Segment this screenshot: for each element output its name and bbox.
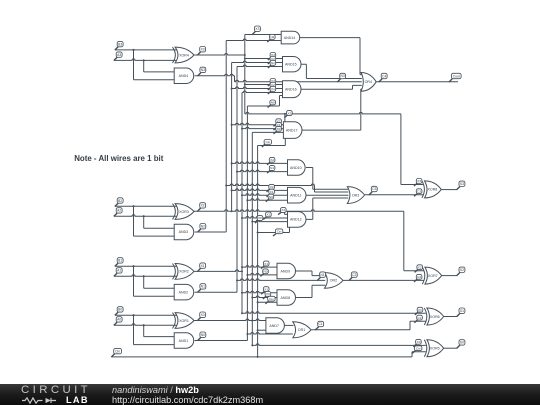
flag/net label X2 — [197, 203, 205, 212]
junction at 258,232 — [257, 232, 259, 234]
svg-text:N1: N1 — [201, 285, 205, 289]
svg-text:X3: X3 — [255, 27, 259, 31]
wire net A2 to AND3 — [144, 227, 175, 229]
wire net N2 source — [195, 231, 227, 233]
wire AND14 input N2 — [226, 39, 281, 41]
flag/net label X0 — [255, 216, 263, 224]
svg-text:C3: C3 — [417, 190, 421, 194]
wire AND17 input X3 stub — [284, 114, 286, 122]
wire net X1 long run to XOR6 — [242, 312, 426, 314]
flag/net label X2 — [415, 265, 423, 273]
svg-text:C2: C2 — [417, 275, 421, 279]
svg-text:A1: A1 — [117, 269, 121, 273]
junction at 134,50 — [133, 49, 135, 51]
wire net A3 input — [114, 59, 177, 60]
junction at 242,267 — [241, 266, 243, 268]
svg-text:C3: C3 — [372, 187, 376, 191]
svg-text:B1: B1 — [118, 259, 122, 263]
wire net S2 output — [442, 275, 457, 277]
wire AND7 input Cin — [258, 329, 266, 331]
svg-text:AND2: AND2 — [179, 290, 189, 294]
flag/net label Cin — [273, 229, 283, 236]
XOR gate XOR7 — [422, 267, 441, 284]
svg-text:OR3: OR3 — [352, 193, 359, 197]
svg-text:X0: X0 — [201, 313, 205, 317]
wire bus net X1 vertical — [241, 93, 243, 314]
flag/net label X1 — [267, 189, 275, 197]
flag/net label B0 — [115, 307, 123, 316]
wire bus net X3 vertical — [244, 35, 246, 114]
flag/net label B1 — [115, 258, 123, 267]
wire net C2 OR2 to XOR7 — [343, 279, 424, 281]
junction at 144,60 — [143, 59, 145, 61]
wire AND16 input N0 route — [247, 96, 282, 107]
svg-text:N1: N1 — [320, 273, 324, 277]
OR gate OR1 — [293, 322, 311, 338]
junction at 232,88 — [231, 88, 233, 90]
svg-text:X3: X3 — [288, 111, 292, 115]
flag/net label A1 — [114, 268, 122, 277]
wire AND12 input X2 step — [285, 211, 288, 214]
wire AND11 input N0 — [247, 199, 287, 200]
svg-text:B2: B2 — [118, 199, 122, 203]
junction at 242,293 — [241, 292, 243, 294]
svg-text:N0: N0 — [201, 333, 205, 337]
flag/net label X3 — [284, 111, 292, 118]
junction at 242,271 — [241, 270, 243, 272]
svg-text:C1: C1 — [418, 316, 422, 320]
flag/net label A0 — [114, 317, 122, 326]
svg-text:X1: X1 — [271, 87, 275, 91]
attribution text — [112, 386, 263, 405]
wire bus net N0 vertical — [246, 106, 248, 341]
svg-text:Cin: Cin — [416, 346, 421, 350]
junction at 237,280 — [236, 279, 238, 281]
wire net N2 long run to OR3 — [226, 184, 348, 192]
flag/net label C2 — [349, 272, 357, 281]
junction at 247,334 — [246, 333, 248, 335]
wire net B1 tap down — [133, 266, 135, 296]
svg-text:AND12: AND12 — [290, 218, 302, 222]
wire bus net N1 vertical — [236, 67, 238, 293]
wire net X0 long run to XOR5 — [252, 344, 425, 346]
junction at 242,313 — [241, 312, 243, 314]
wire net A3 to AND4 — [144, 71, 175, 73]
wire AND16 input X2 — [232, 87, 283, 89]
wire bus net Cin vertical — [257, 146, 259, 357]
svg-text:X0: X0 — [277, 127, 281, 131]
wire net B1 to AND2 — [134, 295, 176, 297]
AND gate AND3 — [174, 224, 194, 240]
wire net A0 tap down — [143, 325, 145, 336]
AND gate AND1 — [174, 333, 194, 349]
svg-text:AND3: AND3 — [179, 230, 189, 234]
flag/net label C3 — [369, 186, 377, 195]
junction at 242,129 — [241, 128, 243, 130]
flag/net label A3 — [114, 52, 122, 61]
wire net B0 tap down — [133, 315, 135, 344]
flag/net label B2 — [115, 198, 123, 207]
svg-text:XOR6: XOR6 — [430, 315, 440, 319]
svg-text:X1: X1 — [267, 213, 271, 217]
flag/net label C1 — [414, 315, 422, 323]
svg-text:OR4: OR4 — [365, 80, 372, 84]
wire AND11 input X2 — [232, 189, 288, 191]
svg-text:X1: X1 — [270, 190, 274, 194]
wire AND14 input X3 — [245, 34, 281, 36]
flag/net label X0 — [263, 292, 271, 300]
junction at 144,216 — [143, 215, 145, 217]
wire AND12 input X1 — [242, 217, 288, 218]
junction at 247,275 — [246, 274, 248, 276]
flag/net label X0 — [413, 339, 421, 347]
flag/net label X3 — [268, 79, 276, 87]
svg-text:S3: S3 — [460, 182, 464, 186]
flag/net label X2 — [268, 57, 276, 65]
svg-text:A2: A2 — [117, 209, 121, 213]
wire AND17 input X2 — [232, 123, 284, 125]
svg-text:Cout: Cout — [453, 74, 460, 78]
junction at 252,345 — [251, 344, 253, 346]
wire net B2 tap down — [133, 206, 135, 236]
wire AND15 output to OR4 — [301, 64, 362, 78]
XOR gate XOR3 — [173, 204, 195, 220]
svg-text:X0: X0 — [417, 340, 421, 344]
svg-text:X1: X1 — [264, 287, 268, 291]
junction at 258,330 — [257, 329, 259, 331]
svg-text:S2: S2 — [460, 268, 464, 272]
wire bus net N2 vertical — [225, 41, 227, 233]
flag/net label X2 — [267, 184, 275, 192]
flag/net label X0 — [197, 312, 205, 321]
junction at 232,190 — [231, 189, 233, 191]
wire AND11 output to OR3 — [306, 194, 349, 196]
flag/net label X3 — [268, 53, 276, 61]
junction at 144,276 — [143, 275, 145, 277]
AND gate AND15 — [283, 57, 302, 72]
wire AND15 input N1 — [237, 65, 283, 67]
flag/net label S0 — [457, 340, 465, 349]
junction at 134,315 — [133, 314, 135, 316]
svg-text:N3: N3 — [201, 68, 205, 72]
svg-text:XOR2: XOR2 — [179, 270, 189, 274]
svg-text:B0: B0 — [118, 308, 122, 312]
wire bus net X2 vertical — [231, 63, 233, 212]
wire net A1 input — [114, 275, 177, 277]
svg-text:AND11: AND11 — [290, 194, 301, 198]
flag/net label X3 — [414, 179, 422, 187]
wire AND10 input X2 — [232, 162, 288, 164]
svg-text:Note - All wires are 1 bit: Note - All wires are 1 bit — [74, 154, 164, 163]
svg-text:N2: N2 — [201, 224, 205, 228]
wire AND17 output to OR4 — [302, 129, 361, 131]
svg-text:OR2: OR2 — [330, 279, 337, 283]
svg-text:B3: B3 — [118, 42, 122, 46]
flag/net label X0 — [274, 126, 282, 133]
AND gate AND14 — [281, 31, 299, 44]
junction at 134,50 — [133, 49, 135, 51]
XOR gate XOR5 — [424, 340, 443, 357]
wire AND8 input Cin — [258, 301, 277, 303]
svg-text:N0: N0 — [264, 270, 268, 274]
flag/net label X1 — [263, 212, 271, 220]
wire AND17 output rise — [360, 89, 362, 130]
svg-text:X2: X2 — [201, 204, 205, 208]
junction at 242,218 — [241, 217, 243, 219]
flag/net label N1 — [268, 61, 276, 69]
svg-text:AND4: AND4 — [179, 74, 189, 78]
XOR gate XOR2 — [173, 264, 195, 280]
junction at 258,357 — [257, 356, 259, 358]
AND gate AND4 — [174, 68, 194, 84]
junction at 252,320 — [251, 320, 253, 322]
junction at 134,315 — [133, 314, 135, 316]
svg-text:N2: N2 — [270, 35, 274, 39]
svg-text:N1: N1 — [271, 61, 275, 65]
wire AND11 input X1 — [242, 194, 288, 196]
AND gate AND2 — [174, 284, 194, 300]
flag/net label X1 — [274, 123, 282, 131]
wire net X3 source — [194, 54, 245, 56]
wire net Cin main run — [112, 352, 426, 357]
flag/net label X2 — [267, 157, 275, 165]
svg-text:N1: N1 — [270, 166, 274, 170]
flag/net label N1 — [267, 166, 275, 174]
flag/net label S3 — [457, 181, 465, 190]
svg-text:A3: A3 — [117, 53, 121, 57]
wire AND15 input X2 — [232, 61, 283, 63]
wire net A1 tap down — [143, 276, 145, 288]
junction at 252,222 — [251, 221, 253, 223]
svg-text:Cin: Cin — [265, 140, 270, 144]
svg-text:AND15: AND15 — [285, 63, 297, 67]
AND gate AND9 — [277, 263, 296, 279]
wire net B0 to AND1 — [134, 344, 176, 346]
wire AND8 input X0 — [252, 296, 277, 298]
svg-text:XOR7: XOR7 — [428, 274, 438, 278]
flag/net label X2 — [274, 119, 282, 127]
wire net B2 input — [115, 205, 177, 207]
junction at 134,266 — [133, 265, 135, 267]
svg-text:AND16: AND16 — [285, 88, 297, 92]
flag/net label X3 — [197, 47, 205, 56]
wire net C3 OR3 to XOR8 — [365, 194, 424, 196]
OR gate OR4 — [361, 73, 376, 92]
svg-text:C2: C2 — [352, 273, 356, 277]
junction at 232,163 — [231, 162, 233, 164]
flag/net label Cin — [412, 346, 422, 354]
wire AND15 input X3 — [245, 58, 283, 60]
svg-text:XOR1: XOR1 — [179, 319, 189, 323]
wire net X1 source — [194, 270, 242, 272]
circuitlab logo — [21, 386, 101, 395]
svg-text:X1: X1 — [201, 264, 205, 268]
wire AND17 input X1 — [242, 127, 283, 129]
wire net N0 source — [195, 340, 248, 342]
wire AND10 output to OR3 — [306, 168, 348, 190]
wire net X2 source + long run to XOR7 — [194, 210, 424, 271]
junction at 134,206 — [133, 205, 135, 207]
flag/net label S2 — [457, 267, 465, 276]
XOR gate XOR4 — [173, 47, 195, 63]
AND gate AND11 — [288, 187, 307, 203]
flag/net label X1 — [261, 287, 269, 295]
svg-text:Cin: Cin — [115, 349, 120, 353]
flag/net label N3 — [198, 67, 206, 76]
flag/net label C2 — [414, 274, 422, 282]
wire AND14 output to OR4 — [300, 38, 362, 75]
wire net C4 OR4 to Cout — [376, 81, 458, 83]
wire net X0 source + AND7 input — [194, 319, 266, 321]
svg-text:X1: X1 — [418, 308, 422, 312]
svg-text:Cin: Cin — [269, 297, 274, 301]
wire AND10 input N1 — [237, 170, 288, 172]
wire net B0 input — [115, 314, 177, 316]
junction at 245,58 — [244, 58, 246, 60]
wire net A1 to AND2 — [144, 287, 175, 289]
wire AND16 input X3 — [245, 84, 283, 86]
svg-text:N0: N0 — [269, 195, 273, 199]
svg-text:XOR5: XOR5 — [430, 347, 440, 351]
flag/net label N0 — [260, 269, 268, 277]
wire OR1 input N0 — [247, 333, 292, 335]
flag/net label N0 — [268, 100, 276, 108]
svg-text:AND14: AND14 — [284, 36, 296, 40]
wire AND17 input X0 — [252, 131, 283, 133]
flag/net label N1 — [317, 272, 325, 281]
OR gate OR2 — [325, 273, 344, 289]
svg-text:C1: C1 — [318, 322, 322, 326]
svg-text:X2: X2 — [270, 185, 274, 189]
svg-text:AND17: AND17 — [286, 128, 298, 132]
flag/net label B3 — [115, 41, 123, 50]
flag/net label N2 — [198, 224, 206, 233]
flag/net label A2 — [114, 208, 122, 217]
AND gate AND8 — [277, 290, 295, 306]
wire net B3 input — [115, 49, 177, 51]
AND gate AND12 — [288, 212, 306, 228]
junction at 245,84 — [244, 84, 246, 86]
svg-text:S1: S1 — [460, 309, 464, 313]
junction at 144,325 — [143, 324, 145, 326]
junction at 245,55 — [244, 54, 246, 56]
junction at 226,186 — [225, 185, 227, 187]
svg-text:AND1: AND1 — [179, 339, 189, 343]
footer bar — [0, 384, 540, 405]
OR gate OR3 — [347, 187, 364, 204]
wire AND9 input X1 — [242, 266, 277, 267]
svg-text:X3: X3 — [201, 48, 205, 52]
junction at 285,114 — [284, 113, 286, 115]
wire AND9 input N0 — [247, 273, 277, 275]
svg-text:N0: N0 — [271, 101, 275, 105]
junction at 258,302 — [257, 301, 259, 303]
svg-text:X2: X2 — [281, 208, 285, 212]
wire AND17 input Cin route — [258, 138, 286, 145]
AND gate AND10 — [288, 160, 306, 176]
wire net C1 OR1 to XOR6 — [311, 321, 426, 330]
svg-text:S0: S0 — [460, 341, 464, 345]
wire AND7 output to OR1 — [284, 324, 293, 326]
XOR gate XOR1 — [173, 313, 195, 329]
svg-text:X0: X0 — [258, 216, 262, 220]
wire net B1 input — [115, 265, 177, 267]
junction at 144,216 — [143, 215, 145, 217]
svg-text:AND8: AND8 — [281, 296, 291, 300]
svg-text:X2: X2 — [418, 265, 422, 269]
XOR gate XOR8 — [422, 181, 441, 198]
svg-text:XOR4: XOR4 — [179, 53, 189, 57]
flag/net label Cout — [449, 73, 461, 82]
svg-text:AND10: AND10 — [290, 166, 302, 170]
wire net B3 tap down — [133, 50, 135, 80]
junction at 144,276 — [143, 275, 145, 277]
junction at 285,211 — [284, 210, 286, 212]
wire net S1 output — [444, 316, 457, 318]
junction at 247,200 — [246, 199, 248, 201]
svg-text:X1: X1 — [264, 262, 268, 266]
wire AND16 input X1 — [242, 91, 283, 93]
flag/net label Cin — [111, 348, 121, 357]
wire net A0 input — [114, 324, 177, 326]
wire net B3 to AND4 — [134, 79, 176, 81]
wire net B2 to AND3 — [134, 235, 176, 237]
junction at 144,325 — [143, 324, 145, 326]
flag/net label C4 — [379, 73, 387, 82]
flag/net label X2 — [278, 208, 286, 215]
svg-text:AND7: AND7 — [269, 324, 279, 328]
flag/net label S1 — [457, 308, 465, 317]
junction at 242,195 — [241, 194, 243, 196]
wire AND16 output to OR4 — [301, 85, 362, 89]
flag/net label N0 — [266, 194, 274, 202]
flag/net label C1 — [315, 321, 323, 330]
flag/net label N0 — [198, 332, 206, 341]
junction at 252,298 — [251, 297, 253, 299]
wire net N3 from AND4 to OR4 — [195, 74, 362, 82]
flag/net label X1 — [197, 263, 205, 272]
svg-text:AND9: AND9 — [281, 269, 291, 273]
wire net A2 tap down — [143, 216, 145, 228]
flag/net label C3 — [414, 189, 422, 197]
AND gate AND17 — [283, 122, 302, 139]
flag/net label X1 — [415, 307, 423, 315]
XOR gate XOR6 — [424, 308, 443, 325]
wire net A2 input — [114, 215, 177, 217]
flag/net label Cin — [265, 296, 275, 304]
flag/net label N1 — [198, 284, 206, 293]
flag/net label N2 — [267, 35, 275, 43]
junction at 134,206 — [133, 205, 135, 207]
flag/net label X1 — [261, 261, 269, 269]
wire AND12 output to OR3 — [306, 198, 348, 219]
svg-text:XOR3: XOR3 — [179, 210, 189, 214]
wire AND12 input Cin route — [258, 227, 290, 232]
svg-text:X2: X2 — [270, 158, 274, 162]
svg-text:N3: N3 — [340, 74, 344, 78]
flag/net label X3 — [252, 26, 260, 35]
wire AND17 output stub — [361, 88, 362, 90]
junction at 232,211 — [231, 210, 233, 212]
svg-text:A0: A0 — [117, 318, 121, 322]
svg-text:X0: X0 — [266, 292, 270, 296]
svg-text:OR1: OR1 — [298, 328, 305, 332]
flag/net label X2 — [268, 83, 276, 91]
AND gate AND16 — [283, 81, 301, 98]
junction at 232,125 — [231, 124, 233, 126]
junction at 134,266 — [133, 265, 135, 267]
junction at 144,60 — [143, 59, 145, 61]
